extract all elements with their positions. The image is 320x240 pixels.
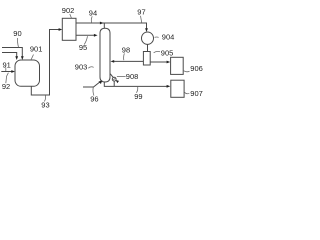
svg-text:99: 99 (134, 92, 142, 101)
svg-text:94: 94 (89, 8, 97, 17)
svg-text:908: 908 (126, 72, 139, 81)
svg-text:905: 905 (161, 48, 174, 57)
svg-text:92: 92 (2, 82, 10, 91)
svg-text:907: 907 (190, 89, 203, 98)
svg-text:903: 903 (75, 62, 88, 71)
svg-text:90: 90 (13, 29, 21, 38)
svg-text:902: 902 (62, 6, 75, 15)
svg-text:906: 906 (190, 64, 203, 73)
svg-text:93: 93 (41, 101, 49, 110)
svg-text:97: 97 (137, 7, 145, 16)
svg-text:91: 91 (3, 60, 11, 69)
svg-text:98: 98 (122, 45, 130, 54)
svg-text:95: 95 (79, 43, 87, 52)
svg-text:96: 96 (90, 94, 98, 103)
svg-text:904: 904 (162, 32, 175, 41)
svg-text:901: 901 (30, 44, 43, 53)
